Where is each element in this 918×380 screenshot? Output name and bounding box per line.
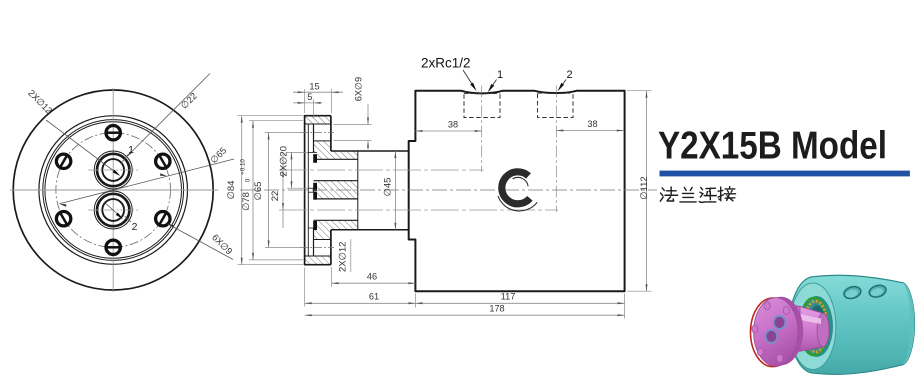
section flange left face — [304, 116, 306, 265]
dim 15 extension lines — [304, 89, 306, 113]
dim 2xD20 — [291, 152, 293, 188]
section flange top edge — [304, 115, 331, 117]
svg-text:2X∅20: 2X∅20 — [279, 146, 290, 176]
3d flange red seal ring — [751, 298, 796, 367]
svg-text:∅78: ∅78 — [241, 192, 252, 211]
section flange recess face — [307, 124, 309, 256]
title blue underline rule — [660, 171, 910, 177]
3d flange port hole 1 blue — [774, 316, 786, 329]
svg-text:178: 178 — [489, 303, 504, 313]
dim 22 — [282, 152, 284, 228]
dim 46 — [332, 282, 416, 284]
3d body cylinder silhouette — [790, 275, 915, 374]
section flange bottom edge — [304, 264, 331, 266]
left view port 1 circles — [94, 151, 132, 189]
3d body right cap shade — [901, 282, 915, 365]
dim D112 extension lines — [627, 90, 652, 92]
dim D65 section extension lines — [265, 132, 300, 134]
section body housing outline — [409, 91, 625, 292]
subtitle char lan — [680, 187, 696, 201]
section flange bottom rim hatch — [305, 256, 331, 265]
dim 38 right — [556, 130, 624, 132]
svg-text:2xRc1/2: 2xRc1/2 — [421, 56, 471, 71]
section port 1 vertical centerline — [481, 86, 483, 173]
section port 1 dashed Rc1/2 thread — [464, 94, 500, 117]
svg-text:∅84: ∅84 — [226, 181, 237, 200]
3d flange disc — [751, 297, 804, 367]
svg-text:61: 61 — [369, 291, 379, 301]
section bolt hole centerline dashdot lower — [300, 247, 334, 249]
svg-text:∅112: ∅112 — [639, 176, 650, 199]
section cbore D20 edge lines — [308, 151, 317, 153]
svg-text:5: 5 — [307, 92, 312, 102]
left view port2 leader arrow — [104, 202, 122, 218]
section flange hub face segments — [313, 124, 315, 153]
dim 61 extension line — [304, 268, 306, 307]
section main centerline — [240, 189, 657, 191]
3d flange port hole 2 blue — [766, 330, 778, 343]
svg-text:22: 22 — [270, 191, 281, 202]
section bolt hole centerline dashdot upper — [300, 132, 334, 134]
dim 46 extension line — [331, 267, 333, 287]
3d top port hole 1 — [843, 285, 863, 301]
left view vertical centerline — [112, 88, 114, 292]
3d rotor shaft — [790, 305, 829, 354]
left view 6 bolt holes 6xD9 — [106, 126, 121, 140]
dim 2xD20 extension lines — [287, 151, 308, 153]
dim D84 extension lines — [238, 115, 304, 117]
3d rotor shaft main segment — [800, 306, 829, 351]
section mid web hatch — [314, 181, 358, 199]
dim 117 — [415, 302, 624, 304]
left view flange circle D84 — [39, 116, 188, 265]
dim 178 — [305, 314, 625, 316]
left view bolt circle D65 dash-dot — [56, 133, 171, 248]
dim D78 tol — [252, 121, 254, 260]
3d flange face — [754, 298, 798, 366]
dim 38 left — [415, 130, 481, 132]
manufacturer C logo — [498, 172, 537, 211]
svg-text:2X∅12: 2X∅12 — [338, 242, 349, 272]
section port 2 dashed Rc1/2 thread — [538, 94, 574, 118]
section rotor D45 bottom line — [331, 229, 409, 231]
dim D84 — [241, 116, 243, 265]
dim 61 — [305, 302, 416, 304]
3d flange thickness rim — [759, 297, 803, 365]
subtitle char jie — [718, 187, 735, 201]
section seal blocks — [313, 154, 317, 163]
svg-text:15: 15 — [309, 81, 319, 91]
svg-text:117: 117 — [501, 291, 516, 301]
left view leader D22 — [128, 74, 210, 156]
section passage D12 lines — [314, 158, 358, 160]
section port 2 vertical centerline — [555, 86, 557, 213]
left view leader 6xD9 — [168, 224, 233, 259]
dim 15 — [293, 91, 343, 93]
section rotor hatch end line — [357, 151, 359, 230]
dim 5 — [293, 102, 322, 104]
section passage 1 centerline — [279, 169, 484, 171]
dim D78 extension lines — [249, 120, 303, 122]
svg-text:38: 38 — [448, 119, 458, 129]
3d shaft highlight — [790, 312, 821, 324]
3d bearing gold ball ring — [804, 301, 827, 352]
svg-text:1: 1 — [497, 69, 503, 81]
dim D65 section — [268, 133, 270, 248]
left view leader 2xD12 line — [46, 120, 119, 175]
3d top port hole 2 — [868, 283, 888, 299]
section flange right face lower — [330, 230, 332, 265]
svg-text:2: 2 — [132, 221, 138, 233]
subtitle char fa — [660, 187, 677, 201]
dim D45 — [394, 151, 396, 230]
svg-text:46: 46 — [367, 272, 377, 282]
subtitle char lian — [699, 187, 716, 202]
svg-text:6X∅9: 6X∅9 — [354, 77, 364, 101]
svg-text:∅45: ∅45 — [383, 178, 394, 197]
left view port 1 horizontal centerline — [88, 169, 138, 171]
section flange rim inner lines — [305, 123, 331, 125]
left view port 2 horizontal centerline — [88, 209, 138, 211]
dim D112 — [646, 91, 648, 292]
left view port 2 circles — [94, 191, 132, 229]
3d flange bolt holes — [764, 302, 770, 310]
section rotor D45 top line — [331, 150, 409, 152]
svg-text:Y2X15B Model: Y2X15B Model — [658, 125, 887, 168]
svg-text:∅65: ∅65 — [253, 182, 264, 201]
3d teal housing — [790, 275, 915, 374]
section flange web lines — [314, 140, 331, 142]
section flange lower web and rotor hatch — [314, 220, 358, 239]
section flange right face upper — [330, 116, 332, 151]
svg-text:+0.10: +0.10 — [240, 159, 247, 175]
left view D65 diameter line — [59, 159, 234, 204]
3d bearing green ring — [800, 298, 828, 355]
section flange upper web and rotor hatch — [314, 141, 358, 159]
section passage 2 centerline — [279, 209, 558, 211]
3d body left face ring — [790, 283, 836, 369]
left view horizontal centerline — [10, 189, 219, 191]
dim 117 extension line — [624, 294, 626, 319]
3d bore inner dark — [809, 306, 827, 348]
section flange top rim hatch — [305, 116, 331, 124]
left view recess circle D78 double — [43, 120, 184, 261]
svg-text:0: 0 — [245, 178, 252, 182]
3d rotor shaft step segment — [790, 305, 805, 354]
svg-text:38: 38 — [587, 119, 597, 129]
svg-text:2: 2 — [566, 69, 572, 81]
3d bore dark recess — [800, 296, 833, 357]
left view flange outer circle (body D112) — [13, 90, 213, 290]
dim 6xD9 lines — [367, 104, 369, 125]
